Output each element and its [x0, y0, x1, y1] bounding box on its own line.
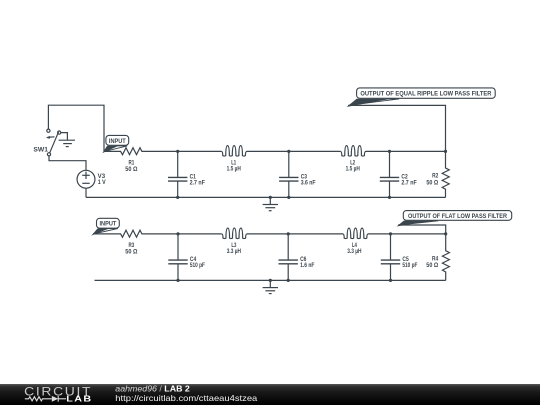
resistor R4: [442, 234, 449, 281]
node C3 bottom junction: [287, 196, 290, 199]
resistor R2: [442, 151, 449, 197]
switch SW1: [46, 129, 61, 156]
svg-text:INPUT: INPUT: [109, 139, 126, 145]
svg-text:50 Ω: 50 Ω: [125, 250, 137, 256]
CircuitLab logo and footer text: [0, 384, 540, 405]
capacitor C5: [381, 234, 400, 281]
flag INPUT (top), anchored at node before R1: [102, 135, 128, 153]
label L2 1.5 uH: [346, 160, 360, 172]
node C1 bottom junction: [176, 196, 179, 199]
label R2 50 Ohm: [426, 174, 438, 187]
node ground junction top circuit: [269, 196, 272, 199]
capacitor C2: [380, 151, 399, 197]
wire bottom rail of bottom circuit: [95, 279, 446, 281]
svg-text:C6: C6: [300, 257, 307, 263]
wire top rail from C5 to R4: [391, 233, 446, 235]
wire SW1 common to V3 plus: [49, 156, 86, 170]
svg-text:1.6 nF: 1.6 nF: [300, 263, 315, 269]
svg-text:R3: R3: [129, 243, 135, 249]
svg-text:C4: C4: [190, 257, 197, 263]
resistor R3: [93, 230, 178, 237]
earth ground (bottom circuit): [263, 280, 278, 293]
svg-text:R4: R4: [432, 256, 439, 262]
svg-text:R2: R2: [432, 174, 439, 180]
inductor L3: [178, 228, 288, 238]
svg-text:L4: L4: [352, 243, 357, 249]
inductor L2: [289, 146, 390, 156]
svg-text:R1: R1: [129, 161, 135, 167]
wire from SW1 top throw up and over to INPUT node: [48, 105, 104, 151]
node C2 bottom junction: [388, 196, 391, 199]
node C6 bottom junction: [287, 279, 290, 282]
svg-text:aahmed96 / LAB 2: aahmed96 / LAB 2: [115, 385, 190, 394]
svg-text:SW1: SW1: [33, 147, 48, 153]
node C1 top junction: [176, 150, 179, 153]
node C5 top junction: [389, 232, 392, 235]
label R1 50 Ohm: [125, 161, 137, 174]
svg-text:50 Ω: 50 Ω: [426, 180, 438, 186]
inductor L4: [288, 228, 390, 238]
label L1 1.5 uH: [227, 160, 241, 172]
svg-text:C5: C5: [402, 257, 409, 263]
svg-text:1.5 µH: 1.5 µH: [227, 167, 241, 173]
label C4 510 pF: [190, 257, 205, 269]
svg-text:OUTPUT OF FLAT LOW PASS FILTER: OUTPUT OF FLAT LOW PASS FILTER: [408, 214, 508, 220]
node R2 top junction: [444, 150, 447, 153]
svg-text:C3: C3: [301, 174, 308, 180]
wire bottom rail of top circuit: [86, 196, 446, 198]
svg-text:http://circuitlab.com/cttaeau4: http://circuitlab.com/cttaeau4stzea: [115, 394, 257, 403]
flag OUTPUT OF FLAT LOW PASS FILTER: [397, 211, 512, 227]
label V3 1 V: [98, 174, 106, 186]
svg-text:510 pF: 510 pF: [402, 263, 417, 269]
svg-text:510 pF: 510 pF: [190, 263, 205, 269]
svg-text:C1: C1: [190, 174, 197, 180]
node C3 top junction: [287, 150, 290, 153]
node C6 top junction: [287, 232, 290, 235]
label C1 2.7 nF: [190, 174, 206, 186]
svg-text:2.7 nF: 2.7 nF: [190, 181, 206, 187]
svg-text:OUTPUT OF EQUAL RIPPLE LOW PAS: OUTPUT OF EQUAL RIPPLE LOW PASS FILTER: [360, 92, 492, 98]
voltage source V3: [77, 170, 95, 188]
svg-text:INPUT: INPUT: [100, 222, 117, 228]
svg-text:LAB: LAB: [66, 394, 92, 403]
label C6 1.6 nF: [300, 257, 315, 269]
svg-text:C2: C2: [401, 174, 408, 180]
wire V3 minus to bottom rail: [85, 188, 87, 197]
svg-text:3.3 µH: 3.3 µH: [347, 249, 361, 255]
svg-text:L2: L2: [350, 160, 355, 166]
node C2 top junction: [388, 150, 391, 153]
node R4 top junction: [444, 232, 447, 235]
svg-text:2.7 nF: 2.7 nF: [401, 181, 417, 187]
node C4 bottom junction: [176, 279, 179, 282]
flag OUTPUT OF EQUAL RIPPLE LOW PASS FILTER: [347, 88, 496, 107]
label C2 2.7 nF: [401, 174, 417, 186]
capacitor C3: [279, 151, 298, 197]
inductor L1: [178, 146, 289, 156]
earth ground (top circuit): [263, 197, 278, 210]
svg-text:1 V: 1 V: [98, 180, 106, 186]
node C5 bottom junction: [389, 279, 392, 282]
label C5 510 pF: [402, 257, 417, 269]
svg-text:50 Ω: 50 Ω: [426, 263, 438, 269]
capacitor C4: [168, 234, 187, 281]
svg-text:L3: L3: [231, 243, 236, 249]
label C3 3.6 nF: [301, 174, 316, 186]
label L3 3.3 uH: [227, 243, 241, 255]
resistor R1: [104, 148, 178, 155]
node ground junction bottom circuit: [269, 279, 272, 282]
label L4 3.3 uH: [347, 243, 361, 255]
earth ground at SW1 right throw: [59, 133, 75, 147]
svg-text:50 Ω: 50 Ω: [125, 167, 137, 173]
svg-text:3.6 nF: 3.6 nF: [301, 181, 316, 187]
svg-text:1.5 µH: 1.5 µH: [346, 167, 360, 173]
wire from equal-ripple output flag to R2 node: [348, 105, 445, 151]
svg-text:L1: L1: [231, 160, 236, 166]
wire from flat output flag to R4 node: [398, 225, 445, 234]
wire top rail from C2 to R2: [390, 150, 446, 152]
label R3 50 Ohm: [125, 243, 137, 256]
node C4 top junction: [176, 232, 179, 235]
label R4 50 Ohm: [426, 256, 438, 269]
capacitor C6: [279, 234, 298, 281]
capacitor C1: [168, 151, 187, 197]
flag INPUT (bottom): [91, 218, 119, 235]
svg-text:3.3 µH: 3.3 µH: [227, 249, 241, 255]
